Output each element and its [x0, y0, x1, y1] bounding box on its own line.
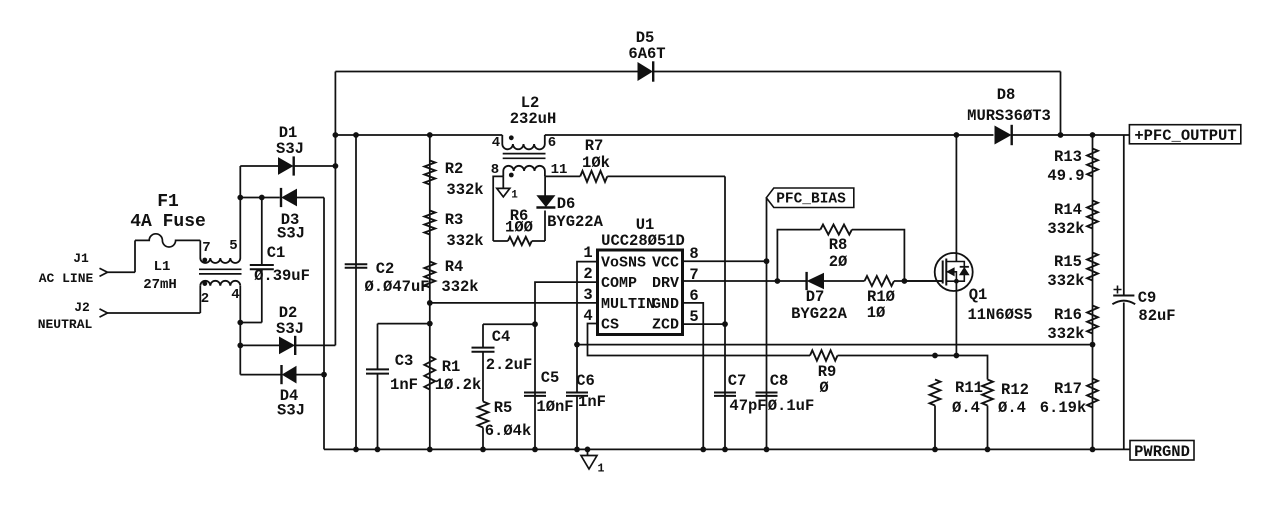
svg-text:AC LINE: AC LINE	[39, 271, 94, 286]
net flag PFC_BIAS	[766, 188, 854, 208]
svg-text:4: 4	[583, 307, 592, 325]
resistor R9 zigzag	[810, 350, 838, 360]
svg-text:1: 1	[583, 244, 592, 262]
junction COMP/C4 tap	[532, 321, 538, 327]
svg-text:C2: C2	[376, 260, 395, 278]
inductor L2 main winding	[502, 135, 545, 149]
transistor Q1 source arrow	[947, 268, 954, 276]
svg-text:C4: C4	[492, 328, 511, 346]
wire U1 pin3 MULTIN	[430, 302, 598, 304]
svg-text:2Ø: 2Ø	[829, 253, 848, 271]
svg-text:332k: 332k	[1047, 325, 1084, 343]
op-amp U1 (UCC28051D) box	[598, 250, 683, 335]
junction C7 bottom on gnd rail	[722, 447, 728, 453]
inductor L1 core lines	[199, 269, 242, 274]
wire R7 corner down to ZCD/C7	[724, 176, 726, 449]
wire fuse left vertical	[134, 240, 136, 272]
wire R11 bottom lead	[934, 406, 936, 450]
svg-text:L1: L1	[154, 259, 171, 275]
resistor R17 zigzag	[1087, 379, 1098, 408]
svg-text:47pF: 47pF	[729, 397, 766, 415]
wire D4 cathode left	[240, 374, 281, 376]
diode D4 symbol	[283, 367, 296, 383]
svg-text:R15: R15	[1054, 253, 1082, 271]
inductor L1 bottom winding	[200, 281, 240, 286]
svg-text:R11: R11	[955, 379, 983, 397]
wire bridge negative vertical x324	[323, 198, 325, 450]
capacitor C2	[345, 264, 368, 268]
svg-text:R5: R5	[494, 399, 513, 417]
transistor Q1 body diode	[960, 268, 969, 275]
wire L1 pin2 lead	[199, 286, 201, 313]
svg-text:R16: R16	[1054, 306, 1082, 324]
wire shunt node to Q1 source	[935, 355, 956, 357]
capacitor C9 plus sign	[1114, 286, 1122, 294]
junction C5 bottom on gnd rail	[532, 447, 538, 453]
svg-text:2.2uF: 2.2uF	[486, 356, 533, 374]
svg-text:2: 2	[201, 291, 209, 307]
svg-text:3: 3	[583, 286, 592, 304]
wire L1 pin7 lead	[199, 240, 201, 258]
inductor L2 aux winding	[503, 166, 545, 177]
svg-text:1nF: 1nF	[390, 376, 418, 394]
svg-text:2: 2	[583, 265, 592, 283]
junction C1 bottom on AC2 vertical	[237, 320, 243, 326]
wire D1 anode left	[240, 165, 278, 167]
svg-text:C5: C5	[541, 369, 560, 387]
wire C4 to R5	[482, 352, 484, 402]
svg-text:C1: C1	[267, 244, 286, 262]
diode D7 symbol	[808, 274, 824, 289]
svg-text:J2: J2	[74, 300, 90, 315]
svg-text:BYG22A: BYG22A	[547, 213, 604, 231]
svg-text:C7: C7	[728, 372, 747, 390]
svg-text:R12: R12	[1001, 381, 1029, 399]
junction GND pin on gnd rail	[700, 447, 706, 453]
wire D2 anode left	[240, 344, 279, 346]
junction R1 bottom on gnd rail	[427, 447, 433, 453]
svg-text:S3J: S3J	[277, 402, 305, 420]
junction R16/R17 sense tap	[1090, 342, 1096, 348]
connector J1 pin arrow	[100, 268, 108, 276]
svg-text:R3: R3	[445, 211, 464, 229]
svg-text:49.9: 49.9	[1047, 167, 1084, 185]
wire L2 pin11 to R7	[545, 175, 580, 177]
wire D3 anode right	[297, 197, 325, 199]
wire C3 bottom lead	[377, 374, 379, 450]
svg-text:C9: C9	[1138, 289, 1157, 307]
svg-text:332k: 332k	[446, 232, 483, 250]
junction D1 cathode at x335	[333, 163, 339, 169]
wire R12 bottom lead	[987, 406, 989, 450]
junction VCC node	[764, 258, 770, 264]
wire C9 bottom lead	[1123, 303, 1125, 450]
wire R6 right lead	[532, 240, 545, 242]
inductor L2 phase dot aux	[509, 173, 514, 178]
wire R10 to gate node	[894, 280, 943, 282]
wire L2 pin8 to left	[493, 176, 503, 241]
wire U1 pin4 CS	[588, 324, 811, 356]
svg-text:5: 5	[229, 238, 237, 254]
fuse F1	[135, 234, 200, 247]
wire C6 leads	[576, 345, 578, 393]
svg-text:R1: R1	[442, 358, 461, 376]
wire R7 to corner	[607, 175, 725, 177]
resistor R11 zigzag	[930, 380, 941, 406]
svg-text:1: 1	[598, 463, 605, 476]
ground GND1 bottom	[581, 456, 597, 470]
port +PFC_OUTPUT box	[1129, 125, 1240, 144]
wire AC1 vertical pin5	[239, 166, 241, 258]
junction Q1 source node	[954, 353, 960, 359]
wire D4 anode right	[296, 374, 324, 376]
svg-text:BYG22A: BYG22A	[791, 305, 848, 323]
svg-text:NEUTRAL: NEUTRAL	[38, 317, 93, 332]
svg-text:D7: D7	[806, 288, 825, 306]
svg-text:F1: F1	[157, 192, 179, 212]
junction AC1/D3 wire	[237, 195, 243, 201]
svg-text:J1: J1	[73, 251, 89, 266]
resistor R1 zigzag	[424, 357, 435, 390]
transistor Q1 circle	[935, 253, 973, 291]
wire U1 pin5 ZCD	[683, 323, 726, 325]
svg-text:R2: R2	[445, 160, 464, 178]
svg-text:D6: D6	[557, 195, 576, 213]
diode D3 symbol	[282, 190, 296, 206]
svg-text:Ø: Ø	[819, 379, 828, 397]
wire C2 vertical	[355, 135, 357, 449]
wire U1 pin7 DRV	[683, 280, 806, 282]
inductor L2 core lines	[503, 154, 546, 159]
wire C9 top lead	[1123, 135, 1125, 296]
svg-text:4: 4	[492, 135, 500, 151]
junction gnd stub	[585, 447, 591, 453]
junction top branch on output rail	[1058, 132, 1064, 138]
svg-text:Ø.4: Ø.4	[998, 399, 1026, 417]
svg-text:27mH: 27mH	[143, 277, 177, 293]
wire R6 left lead	[493, 240, 508, 242]
wire C3 top lead	[377, 324, 379, 370]
diode D5 symbol	[638, 63, 652, 80]
capacitor C5	[524, 393, 546, 396]
junction C2 bottom on gnd rail	[353, 447, 359, 453]
junction DRV/R8 left	[775, 278, 781, 284]
resistor R4 zigzag	[424, 262, 435, 288]
capacitor C1	[250, 265, 274, 269]
ground GND1 under L2	[497, 188, 510, 197]
svg-text:R7: R7	[585, 137, 604, 155]
svg-text:6A6T: 6A6T	[628, 45, 665, 63]
svg-text:4: 4	[231, 287, 239, 303]
diode D6 symbol	[537, 196, 554, 207]
resistor R8 zigzag	[820, 225, 852, 235]
wire PFC_BIAS vertical	[766, 198, 768, 449]
svg-text:PWRGND: PWRGND	[1134, 443, 1190, 461]
resistor R5 zigzag	[478, 402, 489, 428]
svg-text:1ØØ: 1ØØ	[505, 219, 533, 237]
svg-text:D8: D8	[997, 86, 1016, 104]
svg-text:PFC_BIAS: PFC_BIAS	[776, 192, 846, 208]
junction D4 anode	[321, 372, 327, 378]
diode D2 symbol	[280, 337, 295, 353]
svg-text:+PFC_OUTPUT: +PFC_OUTPUT	[1134, 127, 1236, 145]
wire U1 pin6 GND	[683, 303, 704, 450]
wire D2 cathode right	[295, 344, 335, 346]
wire main rail L2 to D8	[545, 134, 994, 136]
wire C4 top lead	[482, 324, 484, 347]
wire D5 cathode to right corner	[653, 71, 1060, 73]
svg-text:GND: GND	[652, 296, 679, 313]
diode D8 symbol	[995, 126, 1011, 143]
inductor L1 top winding	[200, 258, 240, 263]
svg-text:4A Fuse: 4A Fuse	[130, 212, 206, 232]
junction R11 bottom on gnd rail	[932, 447, 938, 453]
wire C4 branch horizontal	[483, 323, 535, 325]
svg-text:C6: C6	[576, 372, 595, 390]
junction VoSNS/C6	[574, 342, 580, 348]
capacitor C4	[472, 348, 495, 352]
transistor Q1 channel bar	[945, 259, 947, 286]
junction ZCD stub	[722, 321, 728, 327]
junction divider top on rail	[1090, 132, 1096, 138]
wire R5 bottom lead	[482, 428, 484, 450]
svg-text:1: 1	[511, 190, 518, 202]
svg-text:6.Ø4k: 6.Ø4k	[485, 422, 532, 440]
capacitor C8	[756, 393, 778, 396]
junction C1 top on D3 wire	[259, 195, 265, 201]
junction R11 top	[932, 353, 938, 359]
svg-text:1Ø.2k: 1Ø.2k	[435, 376, 482, 394]
junction rail at x335	[333, 132, 339, 138]
svg-text:Ø.1uF: Ø.1uF	[768, 397, 815, 415]
wire U1 pin8 VCC	[683, 260, 767, 262]
svg-text:6.19k: 6.19k	[1040, 399, 1087, 417]
wire J2 to L1 pin2	[108, 312, 201, 314]
wire R9 to shunt node	[838, 355, 936, 357]
resistor R12 zigzag	[982, 380, 993, 406]
resistor R15 zigzag	[1087, 253, 1098, 281]
wire to R12 top	[956, 356, 987, 380]
svg-text:1ØnF: 1ØnF	[536, 398, 573, 416]
inductor L1 phase dot bottom	[202, 281, 207, 286]
svg-text:332k: 332k	[441, 278, 478, 296]
svg-text:UCC28Ø51D: UCC28Ø51D	[601, 232, 685, 250]
junction gate node / R8 right	[902, 278, 908, 284]
wire main rail left segment	[335, 134, 502, 136]
junction R2 top on rail	[427, 132, 433, 138]
svg-text:VCC: VCC	[652, 255, 679, 272]
svg-text:11N6ØS5: 11N6ØS5	[967, 306, 1032, 324]
svg-text:S3J: S3J	[277, 225, 305, 243]
capacitor C3	[366, 369, 389, 373]
svg-text:1nF: 1nF	[578, 393, 606, 411]
svg-text:C8: C8	[770, 372, 789, 390]
resistor R10 zigzag	[865, 276, 895, 286]
svg-text:Q1: Q1	[969, 286, 988, 304]
wire power ground rail	[324, 448, 1130, 450]
junction R4 bottom / MULTIN wire	[427, 300, 433, 306]
wire C3 to R1 node	[378, 323, 430, 325]
svg-text:VoSNS: VoSNS	[601, 255, 646, 272]
port PWRGND box	[1130, 441, 1194, 461]
wire C6 bottom lead	[576, 396, 578, 450]
junction C3 tap	[427, 321, 433, 327]
wire R2 chain vertical	[429, 135, 431, 449]
resistor R7 zigzag	[580, 171, 607, 182]
wire C1 top lead	[261, 198, 263, 266]
wire D8 cathode to output box	[1012, 134, 1130, 136]
inductor L1 phase dot top	[202, 258, 207, 263]
junction R12 bottom on gnd rail	[985, 447, 991, 453]
svg-text:DRV: DRV	[652, 275, 679, 292]
diode D1 symbol	[279, 158, 293, 174]
connector J2 pin arrow	[100, 309, 108, 317]
junction R5 bottom on gnd rail	[480, 447, 486, 453]
svg-text:MURS36ØT3: MURS36ØT3	[967, 107, 1051, 125]
svg-text:S3J: S3J	[276, 140, 304, 158]
wire output divider vertical	[1092, 135, 1094, 449]
svg-text:R8: R8	[829, 236, 848, 254]
svg-text:Ø.Ø47uF: Ø.Ø47uF	[364, 278, 429, 296]
wire AC2 vertical pin4	[239, 286, 241, 375]
capacitor C6	[566, 393, 588, 396]
resistor R3 zigzag	[424, 211, 435, 235]
wire D6 cathode lead	[544, 211, 546, 242]
svg-text:R4: R4	[445, 258, 464, 276]
svg-text:R17: R17	[1054, 380, 1082, 398]
wire D6 anode stub	[544, 176, 546, 195]
transistor Q1 gate bar	[942, 261, 944, 284]
svg-text:332k: 332k	[1047, 272, 1084, 290]
wire VoSNS sense line	[577, 344, 1093, 346]
wire Q1 source	[955, 281, 957, 355]
capacitor C7	[714, 393, 736, 396]
svg-text:COMP: COMP	[601, 275, 637, 292]
junction C8 bottom on gnd rail	[764, 447, 770, 453]
svg-text:MULTIN: MULTIN	[601, 296, 655, 313]
junction C3 bottom on gnd rail	[375, 447, 381, 453]
wire U1 pin1 VoSNS	[577, 262, 598, 345]
wire C1 bottom lead	[261, 269, 263, 322]
svg-text:S3J: S3J	[276, 320, 304, 338]
resistor R13 zigzag	[1087, 149, 1098, 177]
junction R17 bottom on gnd rail	[1090, 447, 1096, 453]
svg-text:CS: CS	[601, 317, 619, 334]
wire D7 to R10	[824, 280, 865, 282]
wire top-left to D5 anode	[335, 71, 638, 73]
wire D1 cathode to x335	[294, 165, 336, 167]
svg-text:8: 8	[689, 245, 698, 263]
transistor Q1 internal	[946, 262, 964, 282]
svg-text:7: 7	[202, 240, 210, 256]
svg-text:232uH: 232uH	[510, 110, 557, 128]
resistor R8 loop	[777, 230, 904, 281]
svg-text:1Ø: 1Ø	[867, 304, 886, 322]
wire J1 to fuse	[108, 271, 136, 273]
capacitor C9 (polarized)	[1113, 295, 1134, 297]
wire gnd triangle stub	[587, 449, 589, 455]
svg-text:332k: 332k	[446, 181, 483, 199]
resistor R6 zigzag	[508, 237, 532, 245]
wire bridge positive vertical x335	[334, 72, 336, 346]
resistor R16 zigzag	[1087, 306, 1098, 334]
wire U1 pin2 COMP	[535, 282, 598, 449]
svg-text:ZCD: ZCD	[652, 317, 679, 334]
wire C1 bottom to AC2	[240, 322, 261, 324]
resistor R2 zigzag	[424, 161, 435, 185]
junction D2 anode wire	[237, 343, 243, 349]
wire Q1 drain	[955, 135, 957, 262]
resistor R14 zigzag	[1087, 201, 1098, 229]
svg-text:C3: C3	[395, 352, 414, 370]
svg-text:6: 6	[548, 135, 556, 151]
svg-text:1Øk: 1Øk	[582, 154, 610, 172]
svg-text:R13: R13	[1054, 148, 1082, 166]
svg-text:82uF: 82uF	[1138, 307, 1175, 325]
svg-text:R14: R14	[1054, 201, 1082, 219]
junction Q1 drain on rail	[954, 132, 960, 138]
wire D3 cathode left	[240, 197, 279, 199]
wire right corner down to output rail	[1060, 72, 1062, 136]
transistor Q1 source dot	[954, 279, 959, 284]
inductor L2 phase dot main	[509, 135, 514, 140]
junction C6 bottom on gnd rail	[574, 447, 580, 453]
wire L2 pin8 gnd stub	[502, 176, 504, 188]
svg-text:332k: 332k	[1047, 220, 1084, 238]
svg-text:Ø.4: Ø.4	[952, 399, 980, 417]
wire Q1 gate wire	[904, 280, 942, 282]
junction C2 top on rail	[353, 132, 359, 138]
